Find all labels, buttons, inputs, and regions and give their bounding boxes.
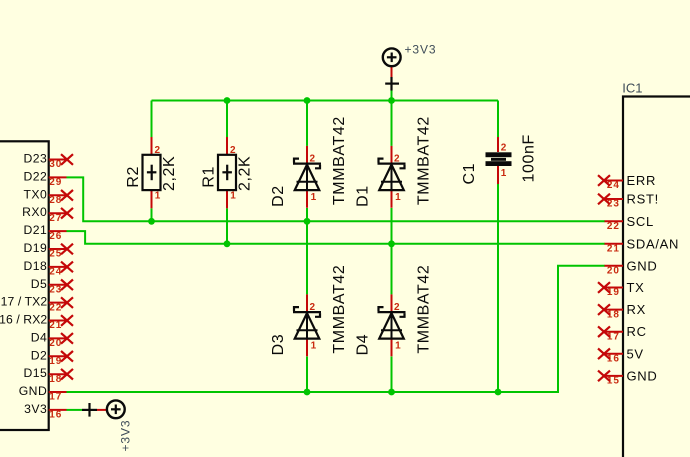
junction D3-GND bbox=[304, 389, 311, 396]
svg-text:RST!: RST! bbox=[627, 192, 659, 207]
IC1 pin 15 (GND) bbox=[598, 368, 658, 386]
svg-text:SCL: SCL bbox=[627, 214, 654, 229]
svg-text:D5: D5 bbox=[31, 277, 48, 291]
junction D4-GND bbox=[388, 389, 395, 396]
junction C1-GND bbox=[495, 389, 502, 396]
IC1 pin 21 (SDA/AN) bbox=[604, 236, 679, 254]
svg-text:ERR: ERR bbox=[627, 173, 657, 188]
resistor R2 (2,2K) bbox=[125, 137, 178, 208]
wire R1 bottom to SDA bbox=[226, 208, 228, 244]
svg-text:21: 21 bbox=[607, 244, 620, 255]
left IC pin 30 (D23) bbox=[23, 152, 73, 171]
left IC pin 18 (D15) bbox=[23, 366, 73, 385]
junction R1 top rail bbox=[224, 97, 231, 104]
junction D1/D4-SDA bbox=[388, 240, 395, 247]
diode D4 (TMMBAT42) bbox=[355, 265, 433, 357]
IC1 pin 18 (RX) bbox=[598, 302, 646, 320]
left IC pin 27 (RX0) bbox=[22, 205, 73, 224]
IC1 pin 17 (RC) bbox=[598, 324, 647, 342]
wire R2 top vertical bbox=[151, 101, 153, 138]
resistor R1 (2,2K) bbox=[201, 137, 254, 208]
svg-text:100nF: 100nF bbox=[521, 134, 538, 182]
svg-text:+3V3: +3V3 bbox=[119, 420, 133, 452]
svg-text:22: 22 bbox=[49, 302, 62, 313]
svg-text:GND: GND bbox=[627, 368, 658, 383]
svg-text:24: 24 bbox=[49, 267, 62, 278]
svg-text:D21: D21 bbox=[23, 223, 47, 237]
left IC pin 22 (17 / TX2) bbox=[1, 295, 73, 314]
svg-text:2: 2 bbox=[394, 302, 401, 313]
wire D2 top vertical bbox=[306, 101, 308, 146]
left IC pin 25 (D19) bbox=[23, 241, 73, 260]
svg-text:D19: D19 bbox=[23, 241, 47, 255]
wire net SDA from D21 pin bbox=[67, 231, 605, 244]
svg-text:25: 25 bbox=[49, 249, 62, 260]
svg-text:1: 1 bbox=[395, 340, 402, 351]
svg-text:1: 1 bbox=[395, 192, 402, 203]
wire 3V3 pin to supply bbox=[67, 409, 83, 411]
left IC pin 17 (GND) bbox=[19, 384, 67, 403]
svg-text:2: 2 bbox=[501, 143, 508, 154]
svg-text:21: 21 bbox=[49, 320, 62, 331]
svg-text:D1: D1 bbox=[355, 185, 372, 207]
svg-text:SDA/AN: SDA/AN bbox=[627, 236, 680, 251]
svg-text:16: 16 bbox=[49, 410, 62, 421]
svg-text:D4: D4 bbox=[31, 330, 48, 344]
svg-text:D22: D22 bbox=[23, 169, 47, 183]
wire D4 bottom to GND rail bbox=[391, 357, 393, 393]
svg-text:D23: D23 bbox=[23, 152, 47, 166]
svg-text:D4: D4 bbox=[355, 334, 372, 356]
svg-text:22: 22 bbox=[607, 221, 620, 232]
svg-text:R1: R1 bbox=[201, 166, 218, 188]
left IC pin 26 (D21) bbox=[23, 223, 66, 242]
svg-text:TX0: TX0 bbox=[23, 187, 47, 201]
junction R2-SCL bbox=[148, 218, 155, 225]
svg-text:D3: D3 bbox=[270, 334, 287, 356]
svg-text:2: 2 bbox=[230, 145, 237, 156]
junction D2/D3-SCL bbox=[304, 218, 311, 225]
svg-text:TMMBAT42: TMMBAT42 bbox=[331, 265, 348, 354]
svg-text:TMMBAT42: TMMBAT42 bbox=[416, 116, 433, 205]
svg-text:2: 2 bbox=[310, 153, 317, 164]
wire +3V3 top rail bbox=[152, 100, 499, 102]
IC1 pin 24 (ERR) bbox=[598, 173, 656, 191]
svg-text:TMMBAT42: TMMBAT42 bbox=[331, 116, 348, 205]
svg-text:2,2K: 2,2K bbox=[161, 156, 178, 191]
left IC pin 29 (D22) bbox=[23, 169, 66, 188]
svg-text:GND: GND bbox=[19, 384, 48, 398]
left IC pin 24 (D18) bbox=[23, 259, 73, 278]
wire D1-D4 vertical bbox=[391, 208, 393, 294]
svg-text:TX: TX bbox=[627, 280, 645, 295]
svg-text:19: 19 bbox=[49, 356, 62, 367]
IC1 pin 22 (SCL) bbox=[604, 214, 654, 232]
svg-text:27: 27 bbox=[49, 213, 62, 224]
svg-text:GND: GND bbox=[627, 258, 658, 273]
svg-text:RC: RC bbox=[627, 324, 647, 339]
svg-text:1: 1 bbox=[501, 168, 508, 179]
left IC pin 23 (D5) bbox=[31, 277, 73, 296]
svg-text:3V3: 3V3 bbox=[24, 402, 47, 416]
svg-text:RX0: RX0 bbox=[22, 205, 47, 219]
wire R2 bottom to SCL bbox=[151, 208, 153, 221]
+3V3 supply symbol (bottom) bbox=[82, 400, 125, 418]
diode D3 (TMMBAT42) bbox=[270, 265, 348, 357]
IC1 pin 23 (RST!) bbox=[598, 192, 659, 210]
left IC pin 28 (TX0) bbox=[23, 187, 73, 206]
+3V3 supply symbol (top) bbox=[383, 48, 401, 100]
svg-text:2,2K: 2,2K bbox=[236, 156, 253, 191]
svg-text:1: 1 bbox=[311, 192, 318, 203]
capacitor C1 (100nF) bbox=[461, 134, 538, 184]
svg-text:D15: D15 bbox=[23, 366, 47, 380]
svg-text:R2: R2 bbox=[125, 166, 142, 188]
svg-text:17 / TX2: 17 / TX2 bbox=[1, 295, 48, 309]
svg-text:30: 30 bbox=[49, 159, 62, 170]
junction R1-SDA bbox=[224, 240, 231, 247]
IC1 pin 19 (TX) bbox=[598, 280, 645, 298]
svg-text:2: 2 bbox=[155, 145, 162, 156]
svg-text:20: 20 bbox=[49, 338, 62, 349]
wire net SCL from D22 pin bbox=[67, 177, 605, 221]
svg-text:RX: RX bbox=[627, 302, 646, 317]
wire D1 top vertical bbox=[391, 101, 393, 146]
wire C1 bottom to GND rail bbox=[497, 184, 499, 392]
wire net GND from left GND pin to IC1 GND bbox=[67, 266, 605, 392]
svg-text:26: 26 bbox=[49, 231, 62, 242]
left IC pin 20 (D4) bbox=[31, 330, 73, 349]
left IC pin 19 (D2) bbox=[31, 348, 73, 367]
wire D2-D3 vertical bbox=[306, 208, 308, 294]
wire D3 bottom to GND rail bbox=[306, 357, 308, 393]
svg-text:+3V3: +3V3 bbox=[405, 43, 437, 57]
IC1 pin 16 (5V) bbox=[598, 346, 644, 364]
svg-text:18: 18 bbox=[49, 374, 62, 385]
diode D2 (TMMBAT42) bbox=[270, 116, 348, 208]
svg-text:17: 17 bbox=[49, 392, 62, 403]
svg-text:D2: D2 bbox=[270, 185, 287, 207]
svg-text:29: 29 bbox=[49, 177, 62, 188]
svg-text:TMMBAT42: TMMBAT42 bbox=[416, 265, 433, 354]
svg-text:16 / RX2: 16 / RX2 bbox=[0, 313, 47, 327]
svg-text:D18: D18 bbox=[23, 259, 47, 273]
op IC1 body outline bbox=[623, 97, 690, 457]
svg-text:IC1: IC1 bbox=[622, 81, 642, 96]
svg-text:2: 2 bbox=[310, 302, 317, 313]
svg-text:23: 23 bbox=[49, 285, 62, 296]
junction D2 top rail bbox=[304, 97, 311, 104]
IC module (left, partial) body outline bbox=[0, 141, 49, 430]
IC1 pin 20 (GND) bbox=[604, 258, 657, 276]
left IC pin 16 (3V3) bbox=[24, 402, 66, 421]
junction +3V3 rail bbox=[388, 97, 395, 104]
wire R1 top vertical bbox=[226, 101, 228, 138]
diode D1 (TMMBAT42) bbox=[355, 116, 433, 208]
svg-text:C1: C1 bbox=[461, 163, 478, 185]
wire C1 top from rail bbox=[497, 101, 499, 138]
svg-text:2: 2 bbox=[394, 153, 401, 164]
svg-text:28: 28 bbox=[49, 195, 62, 206]
svg-text:1: 1 bbox=[311, 340, 318, 351]
svg-text:5V: 5V bbox=[627, 346, 644, 361]
left IC pin 21 (16 / RX2) bbox=[0, 313, 73, 332]
svg-text:20: 20 bbox=[607, 266, 620, 277]
svg-text:D2: D2 bbox=[31, 348, 48, 362]
